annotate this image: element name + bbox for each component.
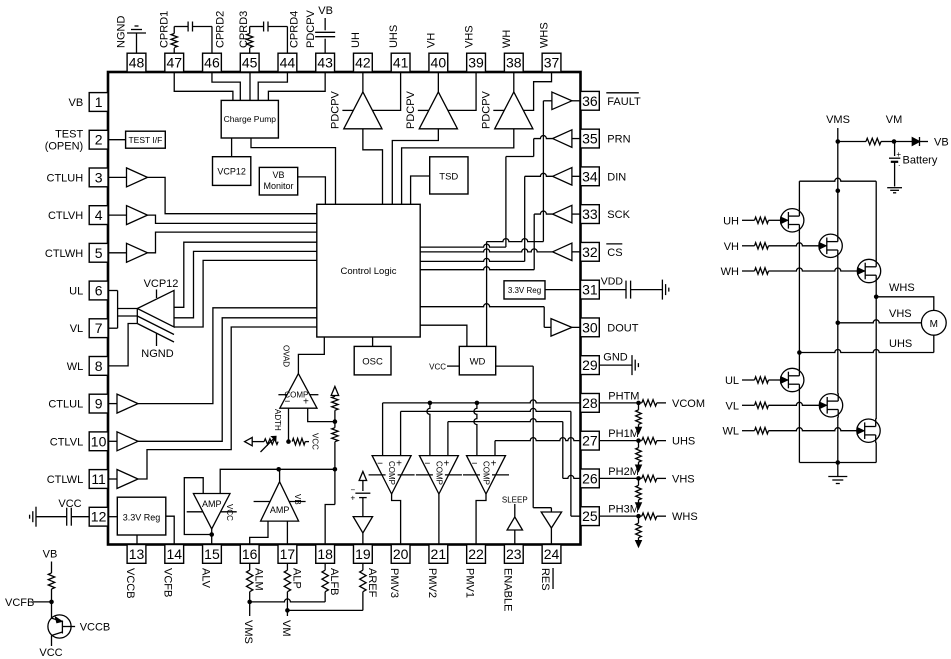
svg-text:WH: WH [721,266,739,278]
svg-text:CTLVL: CTLVL [50,436,83,448]
svg-text:ALM: ALM [253,568,265,591]
svg-text:19: 19 [355,546,371,562]
svg-text:VB: VB [69,97,84,109]
svg-text:OSC: OSC [362,357,383,368]
svg-text:7: 7 [95,320,103,336]
svg-text:13: 13 [129,546,145,562]
svg-text:48: 48 [129,55,145,71]
svg-text:22: 22 [468,546,484,562]
svg-text:15: 15 [204,546,220,562]
svg-text:12: 12 [91,509,107,525]
svg-text:VCC: VCC [225,504,234,521]
svg-text:CPRD4: CPRD4 [288,11,300,48]
svg-text:VH: VH [724,241,739,253]
svg-text:PDCPV: PDCPV [305,9,317,48]
svg-text:SCK: SCK [607,209,630,221]
svg-text:WL: WL [723,426,740,438]
svg-text:14: 14 [166,546,182,562]
svg-text:AREF: AREF [366,568,378,598]
svg-text:TSD: TSD [439,172,458,183]
svg-text:VL: VL [726,400,739,412]
svg-text:3: 3 [95,169,103,185]
svg-text:PDCPV: PDCPV [329,90,341,129]
svg-text:PH2M: PH2M [608,466,639,478]
svg-text:2: 2 [95,132,103,148]
svg-text:PDCPV: PDCPV [480,90,492,129]
svg-text:CTLWL: CTLWL [47,474,83,486]
svg-text:18: 18 [317,546,333,562]
svg-text:CTLUL: CTLUL [48,399,83,411]
svg-text:10: 10 [91,433,107,449]
svg-text:FAULT: FAULT [607,96,641,108]
svg-text:VL: VL [70,323,83,335]
svg-text:17: 17 [280,546,296,562]
svg-text:VB: VB [293,494,302,505]
svg-text:OVAD: OVAD [282,345,291,367]
svg-text:PDCPV: PDCPV [405,90,417,129]
svg-text:4: 4 [95,207,103,223]
svg-text:PHTM: PHTM [608,390,639,402]
svg-text:37: 37 [544,55,560,71]
svg-text:16: 16 [242,546,258,562]
svg-text:COMP: COMP [434,461,443,485]
svg-text:Control Logic: Control Logic [341,266,397,277]
svg-text:3.3V Reg: 3.3V Reg [123,513,161,523]
svg-text:WHS: WHS [889,282,915,294]
svg-text:VB: VB [43,549,58,561]
svg-text:Charge Pump: Charge Pump [224,114,277,124]
svg-text:VCC: VCC [311,433,320,450]
svg-text:46: 46 [204,55,220,71]
svg-text:PH1M: PH1M [608,428,639,440]
svg-text:UL: UL [69,286,83,298]
svg-text:−: − [284,397,290,408]
svg-text:38: 38 [506,55,522,71]
svg-text:PMV2: PMV2 [426,568,438,598]
svg-text:26: 26 [582,470,598,486]
svg-text:VDD: VDD [601,276,624,288]
svg-text:GND: GND [603,352,628,364]
svg-text:5: 5 [95,245,103,261]
svg-text:VHS: VHS [672,473,695,485]
svg-text:VH: VH [426,33,438,48]
svg-text:41: 41 [393,55,409,71]
svg-text:WD: WD [470,357,486,368]
svg-text:36: 36 [582,93,598,109]
svg-text:CPRD1: CPRD1 [159,11,171,48]
svg-text:ALV: ALV [199,568,211,589]
svg-text:VCP12: VCP12 [144,278,179,290]
svg-text:39: 39 [468,55,484,71]
svg-text:VCP12: VCP12 [217,167,246,177]
svg-text:24: 24 [544,546,560,562]
svg-text:42: 42 [355,55,371,71]
svg-text:UL: UL [725,375,739,387]
svg-text:UHS: UHS [388,25,400,48]
svg-text:VCC: VCC [39,647,62,659]
svg-text:(OPEN): (OPEN) [45,141,84,153]
svg-text:−: − [424,459,430,470]
svg-text:31: 31 [582,282,598,298]
svg-text:9: 9 [95,396,103,412]
svg-text:25: 25 [582,508,598,524]
svg-text:6: 6 [95,283,103,299]
svg-text:Monitor: Monitor [263,181,293,191]
svg-text:DIN: DIN [607,171,626,183]
svg-text:VCCB: VCCB [124,568,136,599]
svg-text:44: 44 [280,55,296,71]
svg-text:PMV1: PMV1 [464,568,476,598]
svg-text:TEST: TEST [55,129,83,141]
svg-text:PRN: PRN [607,134,630,146]
svg-text:AMP: AMP [270,505,290,515]
svg-text:ADTH: ADTH [273,409,282,431]
svg-text:VCFB: VCFB [5,597,34,609]
svg-text:WH: WH [501,30,513,48]
svg-text:−: − [377,459,383,470]
svg-text:VCCB: VCCB [80,622,111,634]
svg-text:CPRD2: CPRD2 [215,11,227,48]
svg-text:NGND: NGND [141,348,173,360]
svg-text:40: 40 [431,55,447,71]
svg-text:33: 33 [582,206,598,222]
svg-text:CS: CS [607,247,622,259]
svg-text:20: 20 [393,546,409,562]
svg-text:WHS: WHS [672,511,698,523]
svg-text:M: M [930,319,938,330]
svg-text:43: 43 [317,55,333,71]
svg-text:VB: VB [272,170,284,180]
svg-text:27: 27 [582,433,598,449]
svg-text:WL: WL [67,361,84,373]
svg-text:35: 35 [582,131,598,147]
svg-text:CTLWH: CTLWH [45,248,83,260]
svg-text:CTLVH: CTLVH [48,210,83,222]
svg-text:+: + [351,494,356,503]
svg-text:34: 34 [582,168,598,184]
svg-text:CTLUH: CTLUH [47,172,84,184]
svg-text:DOUT: DOUT [607,322,638,334]
svg-text:NGND: NGND [116,16,128,48]
svg-text:VCFB: VCFB [162,568,174,597]
svg-text:VCC: VCC [429,363,446,372]
svg-text:1: 1 [95,94,103,110]
svg-text:·: · [898,161,901,170]
svg-text:47: 47 [166,55,182,71]
svg-text:VM: VM [280,620,292,637]
svg-text:VHS: VHS [889,308,912,320]
svg-text:VM: VM [886,114,903,126]
svg-text:VHS: VHS [463,25,475,48]
svg-text:SLEEP: SLEEP [502,496,528,505]
svg-text:AMP: AMP [202,499,222,509]
svg-text:PH3M: PH3M [608,504,639,516]
svg-text:VCOM: VCOM [672,398,705,410]
svg-text:−: − [472,459,478,470]
svg-text:28: 28 [582,395,598,411]
svg-text:3.3V Reg: 3.3V Reg [508,286,541,295]
svg-text:29: 29 [582,357,598,373]
svg-text:23: 23 [506,546,522,562]
svg-text:COMP: COMP [387,461,396,485]
svg-text:RES: RES [539,568,551,591]
svg-text:21: 21 [431,546,447,562]
svg-text:VB: VB [318,5,333,17]
svg-text:ALP: ALP [290,568,302,589]
svg-text:WHS: WHS [539,22,551,48]
svg-text:11: 11 [91,471,106,487]
svg-text:30: 30 [582,319,598,335]
svg-text:ENABLE: ENABLE [501,568,513,611]
svg-text:CPRD3: CPRD3 [238,11,250,48]
svg-text:45: 45 [242,55,258,71]
svg-text:VB: VB [934,137,949,149]
svg-text:VCC: VCC [58,498,81,510]
svg-text:PMV3: PMV3 [388,568,400,598]
svg-text:+: + [303,397,309,408]
svg-text:UHS: UHS [672,436,695,448]
svg-text:UH: UH [723,215,739,227]
svg-text:8: 8 [95,358,103,374]
svg-text:ALFB: ALFB [328,568,340,596]
svg-text:UH: UH [350,32,362,48]
svg-text:Battery: Battery [903,155,938,167]
svg-text:UHS: UHS [889,338,912,350]
svg-text:VMS: VMS [242,620,254,644]
svg-text:32: 32 [582,244,598,260]
svg-text:COMP: COMP [482,461,491,485]
svg-text:VMS: VMS [826,114,850,126]
svg-text:TEST I/F: TEST I/F [128,135,162,145]
svg-text:+: + [896,150,901,159]
